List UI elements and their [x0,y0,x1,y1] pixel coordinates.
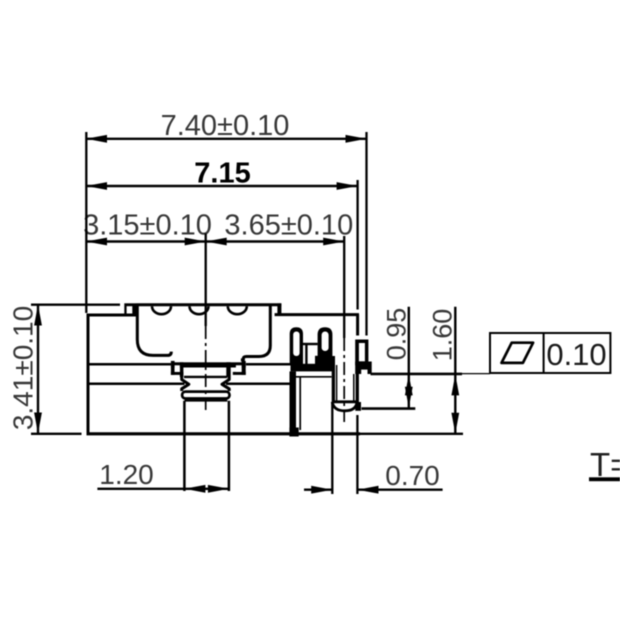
svg-text:7.40±0.10: 7.40±0.10 [161,110,290,142]
svg-text:0.95: 0.95 [382,308,412,361]
svg-text:1.20: 1.20 [99,459,154,490]
svg-text:7.15: 7.15 [194,158,250,190]
svg-text:1.60: 1.60 [428,309,458,362]
svg-text:3.41±0.10: 3.41±0.10 [8,306,39,430]
svg-text:3.65±0.10: 3.65±0.10 [224,210,353,242]
svg-text:0.70: 0.70 [385,460,440,491]
svg-text:0.10: 0.10 [546,337,606,372]
svg-text:3.15±0.10: 3.15±0.10 [83,210,212,242]
